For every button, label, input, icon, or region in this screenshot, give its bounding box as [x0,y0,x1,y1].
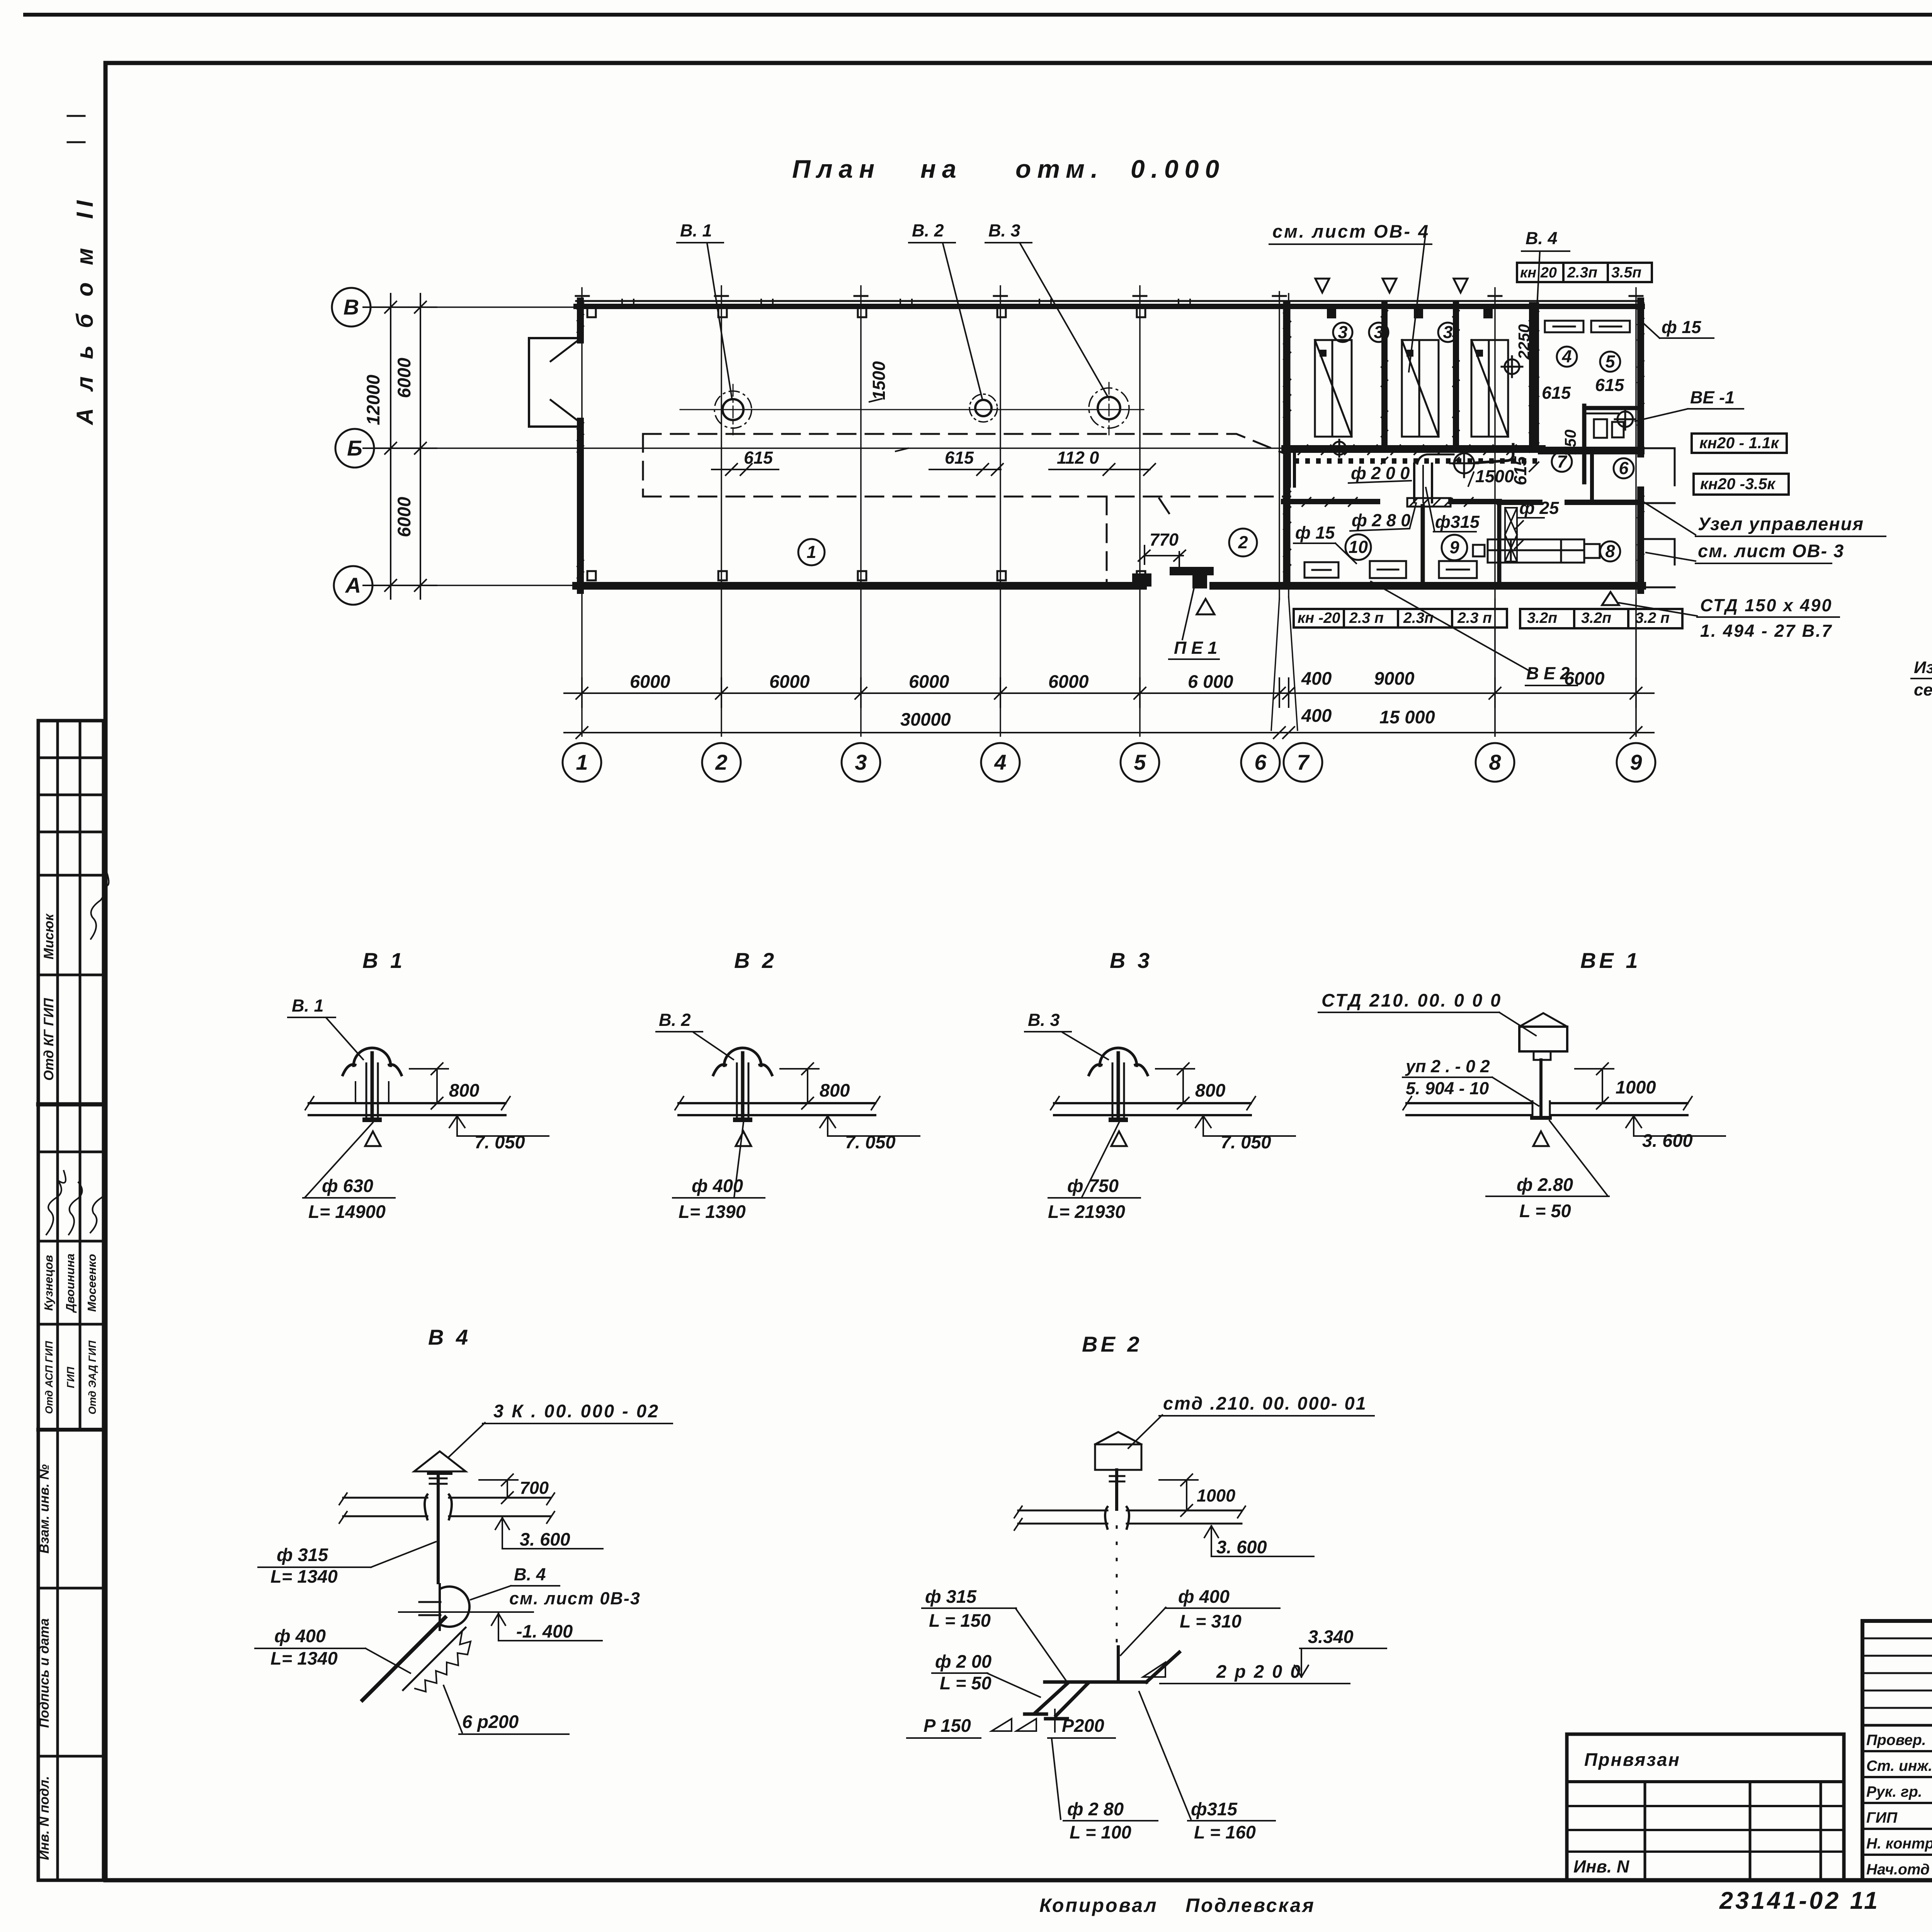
svg-text:2: 2 [1238,532,1248,552]
dimension row 2 [564,727,1654,738]
svg-text:7: 7 [1297,750,1310,774]
svg-text:1: 1 [806,542,816,562]
svg-text:8: 8 [1489,750,1501,774]
svg-text:3.340: 3.340 [1308,1626,1354,1647]
svg-text:23141-02 11: 23141-02 11 [1719,1887,1880,1914]
svg-text:Инв. N подл.: Инв. N подл. [37,1776,52,1860]
svg-text:400: 400 [1301,668,1332,689]
filter chamber wall right [1529,307,1539,446]
svg-text:В Е 2: В Е 2 [1526,663,1570,683]
svg-text:Взам. инв. №: Взам. инв. № [37,1464,52,1553]
svg-text:4: 4 [994,750,1006,774]
PE1 triangle [1197,599,1214,614]
duct labels middle [1351,375,1624,532]
svg-text:6000: 6000 [394,497,414,537]
svg-text:3: 3 [1443,322,1452,342]
svg-text:15 000: 15 000 [1379,707,1435,727]
intake triangles above roof [1315,279,1468,293]
svg-text:9000: 9000 [1374,668,1415,689]
svg-text:800: 800 [1195,1080,1225,1100]
svg-text:кн -20: кн -20 [1298,610,1340,626]
svg-text:112 0: 112 0 [1057,448,1099,468]
svg-text:В. 3: В. 3 [988,221,1020,240]
svg-text:СТД 150 х 490: СТД 150 х 490 [1700,595,1832,615]
svg-text:6 000: 6 000 [1188,671,1233,692]
riser pipes at wall [1289,449,1294,486]
svg-text:615: 615 [1542,383,1571,403]
svg-text:2.3п: 2.3п [1403,610,1434,626]
svg-text:7. 050: 7. 050 [1221,1132,1271,1152]
svg-text:3 К . 00. 000 - 02: 3 К . 00. 000 - 02 [493,1401,660,1421]
fans B1 B2 B3 in hall [680,383,1144,435]
svg-text:В. 3: В. 3 [1028,1010,1060,1030]
svg-text:1. 494 - 27 В.7: 1. 494 - 27 В.7 [1700,621,1833,641]
WC fixtures room5 [1587,413,1624,438]
attachment table [1567,1734,1844,1880]
svg-text:1500: 1500 [1475,466,1514,486]
bottom wall with door opening [576,582,1143,590]
filter cells bottom thick wall [1285,449,1641,451]
scheme B2 [656,948,920,1222]
scheme BE2 [907,1332,1386,1842]
svg-text:Инв. N: Инв. N [1573,1857,1630,1876]
scheme B1 [288,948,549,1222]
room4 bottom wall [1284,502,1641,502]
svg-text:3.2п: 3.2п [1527,610,1557,626]
svg-text:6000: 6000 [1564,668,1605,689]
svg-text:2250: 2250 [1515,324,1533,360]
room4 radiators [1545,321,1630,332]
svg-text:ф 2 80: ф 2 80 [1067,1799,1124,1819]
svg-text:Мисюк: Мисюк [41,913,56,959]
svg-text:стд .210. 00. 000- 01: стд .210. 00. 000- 01 [1163,1393,1367,1413]
KN20-1.1k box [1692,434,1787,453]
left wall [577,301,584,340]
fan labels [680,221,1020,240]
cell dampers black [1320,309,1493,357]
svg-text:А: А [345,573,361,597]
svg-text:L= 21930: L= 21930 [1048,1201,1125,1222]
svg-text:L = 150: L = 150 [929,1610,991,1631]
axis letter circles left [332,288,374,605]
svg-text:ф315: ф315 [1191,1799,1238,1819]
svg-text:В 3: В 3 [1110,948,1153,973]
svg-text:Отд ЭАД ГИП: Отд ЭАД ГИП [87,1340,98,1415]
svg-text:ф 315: ф 315 [277,1544,328,1565]
svg-text:700: 700 [520,1478,549,1498]
svg-text:В 4: В 4 [428,1325,471,1349]
svg-text:7. 050: 7. 050 [845,1132,896,1152]
wall on axis 6 [1283,304,1291,586]
svg-text:615: 615 [744,448,773,468]
room5 partitions [1582,406,1587,482]
svg-text:3.5п: 3.5п [1611,264,1641,281]
entrance vestibule [529,338,577,427]
svg-text:1500: 1500 [869,361,889,400]
svg-text:В. 4: В. 4 [514,1565,546,1584]
svg-text:см. лист ОВ- 3: см. лист ОВ- 3 [1698,541,1844,561]
svg-text:В. 2: В. 2 [912,221,944,240]
svg-text:400: 400 [1301,705,1332,726]
svg-text:800: 800 [820,1080,850,1100]
svg-text:В. 1: В. 1 [680,221,712,240]
svg-text:ф 400: ф 400 [1178,1586,1230,1607]
svg-text:3: 3 [1338,322,1347,342]
svg-text:Нач.отд: Нач.отд [1866,1861,1930,1878]
axis circles bottom [563,743,1655,782]
black marks row under cell wall [1294,458,1537,464]
svg-text:ВЕ 2: ВЕ 2 [1082,1332,1143,1356]
svg-text:В. 4: В. 4 [1526,228,1558,248]
svg-text:В. 1: В. 1 [292,996,324,1015]
svg-text:6000: 6000 [394,358,414,398]
svg-text:Подпись и дата: Подпись и дата [37,1618,52,1728]
svg-text:ф 315: ф 315 [925,1586,977,1607]
svg-text:6000: 6000 [769,671,810,692]
svg-text:В 1: В 1 [362,948,405,973]
dimension row 1 [564,678,1654,707]
scheme BE1 [1318,948,1725,1221]
svg-text:Узел управления: Узел управления [1698,514,1864,534]
svg-text:L = 310: L = 310 [1180,1611,1242,1631]
svg-text:ф 15: ф 15 [1662,317,1701,337]
svg-text:ф 400: ф 400 [274,1626,326,1646]
svg-text:6000: 6000 [630,671,670,692]
svg-text:L = 50: L = 50 [1519,1201,1571,1221]
svg-text:Ст. инж.: Ст. инж. [1866,1758,1932,1774]
svg-text:1000: 1000 [1616,1077,1656,1097]
wall hatching [577,303,1644,578]
svg-text:5: 5 [1134,750,1146,774]
PE1 door unit black [1170,567,1214,588]
svg-text:см. лист 0В-3: см. лист 0В-3 [509,1588,641,1608]
left margin stamp table [38,721,104,1880]
svg-text:Мосеенко: Мосеенко [85,1254,99,1312]
cabinets room 9 [1439,561,1477,578]
svg-text:СТД 210. 00. 0 0 0: СТД 210. 00. 0 0 0 [1321,990,1502,1010]
svg-text:615: 615 [1510,456,1530,485]
svg-text:Провер.: Провер. [1866,1732,1926,1748]
svg-text:2.3 п: 2.3 п [1349,610,1384,626]
svg-text:А л ь б о м II: А л ь б о м II [72,195,98,426]
svg-text:10: 10 [1349,537,1368,557]
svg-text:-1. 400: -1. 400 [516,1621,573,1641]
svg-text:сети 2 ф 25: сети 2 ф 25 [1914,680,1932,699]
svg-text:3.2 п: 3.2 п [1635,610,1670,626]
svg-text:3: 3 [1374,322,1383,342]
svg-text:Б: Б [347,436,362,460]
room number circles [798,323,1634,565]
svg-text:ф 15: ф 15 [1295,523,1335,543]
svg-text:ГИП: ГИП [65,1367,77,1388]
dashed equipment outline [643,434,1290,582]
pump room 8 equipment [1473,539,1600,563]
stamp signatures squiggles [46,873,109,1235]
svg-text:L = 50: L = 50 [940,1673,992,1693]
axis lines horizontal [371,307,1283,585]
svg-text:ф 630: ф 630 [322,1175,373,1196]
svg-text:30000: 30000 [900,709,951,730]
svg-text:ф 750: ф 750 [1067,1175,1119,1196]
svg-text:ВЕ 1: ВЕ 1 [1580,948,1641,973]
svg-text:кн 20: кн 20 [1520,265,1557,281]
sheet top border [25,13,1932,17]
svg-text:ф315: ф315 [1435,512,1480,532]
KN20 table top [1517,263,1652,282]
KN20-3.5k box [1694,474,1789,495]
svg-text:800: 800 [449,1080,479,1100]
svg-text:1: 1 [576,750,588,774]
main signature block [1862,1621,1932,1880]
svg-text:В: В [344,295,359,319]
svg-text:Н. контр.: Н. контр. [1866,1835,1932,1852]
left stamp rotated labels [37,913,99,1860]
rooms 9-10 partitions [1421,506,1425,586]
svg-text:6000: 6000 [909,671,949,692]
right wall with door gap [1637,301,1644,454]
svg-text:7. 050: 7. 050 [474,1132,525,1152]
svg-text:9: 9 [1449,537,1459,557]
svg-text:План на отм. 0.000: План на отм. 0.000 [792,155,1225,183]
svg-text:6: 6 [1619,458,1629,478]
pipe symbol room4 wall [1502,356,1522,377]
svg-text:Отд АСП ГИП: Отд АСП ГИП [43,1341,55,1414]
svg-text:Отд КГ ГИП: Отд КГ ГИП [41,998,56,1081]
svg-text:750: 750 [1561,429,1579,456]
svg-text:8: 8 [1605,541,1615,561]
top wall [576,300,1642,302]
svg-text:ф 25: ф 25 [1519,498,1559,518]
scheme B3 [1025,948,1295,1222]
svg-text:Из наружной тепло-: Из наружной тепло- [1914,658,1932,677]
svg-text:уп 2 . - 0 2: уп 2 . - 0 2 [1405,1056,1490,1076]
svg-text:5. 904 - 10: 5. 904 - 10 [1406,1078,1489,1098]
svg-text:В 2: В 2 [734,948,777,973]
fan BE-1 [1615,409,1636,430]
cabinets room 10 [1304,561,1406,578]
svg-text:3: 3 [855,750,867,774]
svg-text:ф 2 0 0: ф 2 0 0 [1351,463,1410,483]
svg-text:Р200: Р200 [1062,1715,1104,1736]
svg-text:Кузнецов: Кузнецов [42,1255,55,1311]
dims 615 615 1120 [744,448,1099,468]
svg-text:3. 600: 3. 600 [1216,1537,1267,1557]
svg-text:Рук. гр.: Рук. гр. [1866,1784,1922,1800]
column ticks on top wall [576,296,1643,580]
svg-text:кн20 -3.5к: кн20 -3.5к [1700,475,1776,493]
svg-text:кн20 - 1.1к: кн20 - 1.1к [1699,434,1780,452]
left vertical dims [363,294,437,599]
svg-text:Двоинина: Двоинина [63,1253,77,1313]
svg-text:ВЕ -1: ВЕ -1 [1690,388,1735,407]
svg-text:5: 5 [1605,352,1615,371]
svg-text:см. лист ОВ- 4: см. лист ОВ- 4 [1272,221,1430,241]
filter units inside cells [1315,340,1508,437]
3.2p table [1520,609,1682,628]
svg-text:Прнвязан: Прнвязан [1584,1749,1680,1770]
svg-text:2.3 п: 2.3 п [1457,610,1492,626]
svg-text:770: 770 [1150,530,1179,549]
svg-text:L = 160: L = 160 [1194,1822,1256,1842]
svg-text:6000: 6000 [1048,671,1089,692]
corridor duct [1407,444,1513,507]
scheme B4 [255,1325,672,1734]
svg-text:2 р 2 0 0: 2 р 2 0 0 [1216,1661,1302,1682]
svg-text:ф 2.80: ф 2.80 [1517,1174,1573,1195]
svg-text:3. 600: 3. 600 [520,1529,570,1549]
svg-text:L= 1390: L= 1390 [679,1201,746,1222]
svg-text:1000: 1000 [1197,1486,1235,1505]
axis lines vertical [582,286,1636,736]
svg-text:615: 615 [945,448,974,468]
svg-text:ф 2 8 0: ф 2 8 0 [1352,510,1410,530]
svg-text:Копировал Подлевская: Копировал Подлевская [1039,1895,1315,1916]
KN-20 bottom table [1294,609,1507,628]
svg-text:615: 615 [1595,375,1624,395]
svg-text:ф 2 00: ф 2 00 [935,1651,992,1672]
svg-text:4: 4 [1561,347,1571,366]
svg-text:ГИП: ГИП [1866,1810,1898,1826]
svg-text:L= 1340: L= 1340 [270,1648,338,1668]
svg-text:3.2п: 3.2п [1581,610,1611,626]
svg-text:3. 600: 3. 600 [1642,1130,1693,1151]
svg-text:В. 2: В. 2 [659,1010,691,1030]
svg-text:П Е 1: П Е 1 [1174,638,1217,658]
svg-text:6 р200: 6 р200 [462,1711,519,1732]
svg-text:9: 9 [1630,750,1642,774]
svg-text:L = 100: L = 100 [1070,1822,1131,1842]
svg-text:Р 150: Р 150 [923,1715,971,1736]
svg-text:6: 6 [1254,750,1267,774]
fan symbol corridor [1331,440,1478,477]
svg-text:L= 14900: L= 14900 [308,1201,386,1222]
top wall window ticks [622,299,1190,308]
filter cell dividers [1381,304,1388,446]
svg-text:L= 1340: L= 1340 [270,1566,338,1587]
X-braced shaft [1505,508,1517,561]
exits porches right [1644,448,1675,587]
svg-text:2.3п: 2.3п [1567,264,1597,281]
svg-text:12000: 12000 [363,375,383,425]
svg-text:2: 2 [715,750,727,774]
